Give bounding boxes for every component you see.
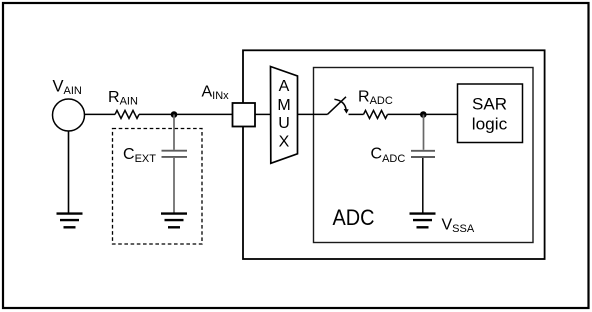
svg-text:logic: logic <box>472 115 508 134</box>
resistor RAIN <box>108 89 139 118</box>
ADC sub-block boundary <box>314 68 534 243</box>
ADC block outer boundary <box>243 50 545 259</box>
svg-text:SAR: SAR <box>472 95 507 114</box>
svg-text:ADC: ADC <box>333 205 375 230</box>
svg-text:A: A <box>279 78 290 95</box>
svg-text:M: M <box>277 97 290 114</box>
block SAR logic U1 <box>458 84 523 143</box>
ground (CEXT) <box>161 214 187 228</box>
wire AMUX to switch <box>298 113 328 115</box>
ground VSSA <box>410 214 475 235</box>
sampling switch <box>328 97 349 115</box>
capacitor CEXT (optional, dashed enclosure) <box>113 115 203 245</box>
resistor RADC <box>358 89 393 119</box>
voltage source VAIN <box>53 77 85 131</box>
svg-text:U: U <box>278 115 290 132</box>
wire VAIN to ground <box>68 131 70 213</box>
svg-text:X: X <box>279 134 290 151</box>
wire pin AINx to AMUX <box>255 113 271 115</box>
node junction RAIN/CEXT <box>171 111 178 118</box>
wire VAIN to RAIN <box>85 113 116 115</box>
wire RAIN to pin AINx <box>139 113 233 115</box>
node junction RADC/CADC <box>420 111 427 118</box>
mux AMUX <box>271 67 298 164</box>
pin AINx <box>202 84 256 127</box>
wire switch to RADC <box>349 113 364 115</box>
capacitor CADC <box>371 115 436 213</box>
wire RADC to SAR logic <box>388 113 458 115</box>
ground (VAIN) <box>57 214 83 228</box>
